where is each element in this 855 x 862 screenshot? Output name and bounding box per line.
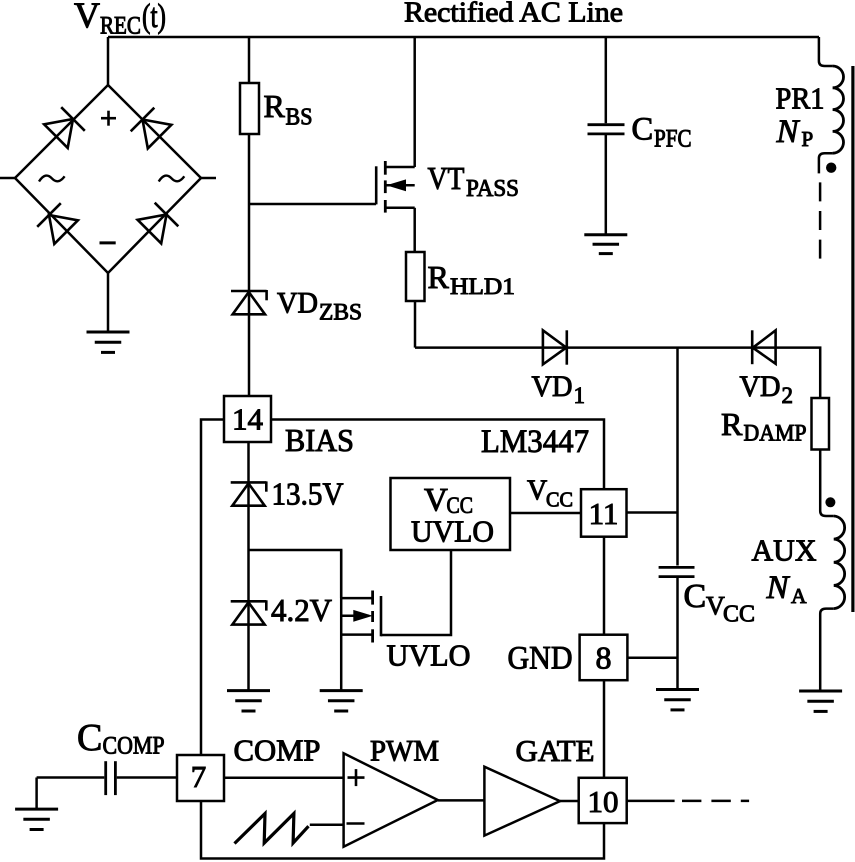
svg-text:PWM: PWM xyxy=(370,735,439,768)
svg-text:BIAS: BIAS xyxy=(285,422,354,458)
svg-text:ZBS: ZBS xyxy=(319,300,362,325)
diode VD2 xyxy=(752,330,775,364)
wire pin14 to 13.5V zener xyxy=(247,442,250,691)
wire VCC UVLO to pin11 xyxy=(510,512,581,515)
label BIAS xyxy=(285,422,354,458)
svg-text:R: R xyxy=(264,88,286,124)
transistor VT_PASS stubs xyxy=(385,167,414,208)
bridge minus sign xyxy=(100,241,116,244)
svg-text:10: 10 xyxy=(588,784,619,819)
diode bridge D2 top-right xyxy=(131,108,172,149)
wire PR1 top xyxy=(819,37,833,66)
svg-text:GATE: GATE xyxy=(516,733,595,768)
label 13.5V xyxy=(272,476,344,512)
svg-text:PASS: PASS xyxy=(466,176,519,202)
svg-text:14: 14 xyxy=(232,402,264,437)
svg-text:CC: CC xyxy=(546,488,573,512)
svg-text:P: P xyxy=(802,127,814,151)
svg-text:N: N xyxy=(766,570,791,606)
pin 7 COMP xyxy=(177,755,224,801)
svg-text:PFC: PFC xyxy=(654,126,692,153)
node Rectified AC Line label xyxy=(404,0,623,29)
svg-text:LM3447: LM3447 xyxy=(481,424,589,460)
label VD_ZBS xyxy=(277,287,362,325)
wire VD2 to R_DAMP xyxy=(776,348,821,398)
wire C_PFC bottom xyxy=(605,135,608,235)
wire PR1 dashed continuation xyxy=(819,182,822,259)
capacitor C_COMP xyxy=(106,761,116,795)
svg-text:2: 2 xyxy=(782,383,794,408)
diode VD1 xyxy=(543,330,567,364)
svg-text:CC: CC xyxy=(723,602,755,628)
svg-text:11: 11 xyxy=(589,496,619,531)
svg-text:DAMP: DAMP xyxy=(744,421,807,446)
label R_HLD1 xyxy=(428,259,516,299)
wire bridge bottom xyxy=(107,273,110,332)
label LM3447 xyxy=(481,424,589,460)
label R_BS xyxy=(264,88,313,131)
label GATE xyxy=(516,733,595,768)
ground bridge xyxy=(87,332,130,352)
svg-text:UVLO: UVLO xyxy=(411,514,494,549)
node AUX phase dot xyxy=(825,497,835,507)
pin 8 GND xyxy=(580,635,628,681)
resistor R_BS xyxy=(240,83,259,134)
svg-text:BS: BS xyxy=(286,105,313,131)
label C_VCC xyxy=(684,578,756,628)
svg-text:4.2V: 4.2V xyxy=(271,592,332,628)
svg-text:COMP: COMP xyxy=(103,733,165,760)
wire C_VCC to ground xyxy=(676,578,679,690)
wire branch to UVLO fet xyxy=(249,550,342,598)
label N_A xyxy=(766,570,808,608)
capacitor C_VCC xyxy=(659,567,695,576)
label AUX xyxy=(752,533,817,568)
bridge plus sign xyxy=(101,111,116,126)
label PWM xyxy=(370,735,439,768)
wire pin7 to PWM xyxy=(224,777,344,780)
label GND xyxy=(508,641,573,677)
label PR1 xyxy=(776,81,825,116)
transistor UVLO fet channel xyxy=(371,591,374,643)
wire R_BS to VD_ZBS xyxy=(248,134,251,396)
transistor UVLO fet stubs xyxy=(341,598,372,635)
svg-text:VD: VD xyxy=(277,287,318,320)
svg-text:COMP: COMP xyxy=(234,733,321,768)
winding PR1 primary xyxy=(819,66,844,173)
wire pin11 to VCC node xyxy=(627,511,678,514)
buffer gate driver xyxy=(484,767,560,836)
zener diode 4.2V xyxy=(231,600,267,624)
resistor R_HLD1 xyxy=(406,252,425,301)
svg-text:C: C xyxy=(632,112,654,148)
svg-text:7: 7 xyxy=(191,759,207,794)
transistor VT_PASS gate bar xyxy=(375,166,378,204)
wire pin8 to VCC node xyxy=(627,656,677,659)
wire driver to pin10 xyxy=(560,800,579,803)
label C_COMP xyxy=(77,717,165,760)
svg-text:8: 8 xyxy=(596,640,612,676)
svg-text:V: V xyxy=(74,0,100,35)
label 4.2V xyxy=(271,592,332,628)
block VCC UVLO xyxy=(391,478,511,550)
svg-text:HLD1: HLD1 xyxy=(450,274,515,299)
svg-text:1: 1 xyxy=(574,383,586,408)
wire pin10 output xyxy=(627,800,675,803)
wire R_BS top xyxy=(248,37,251,83)
svg-text:UVLO: UVLO xyxy=(387,638,471,673)
svg-text:VD: VD xyxy=(532,370,573,403)
ground C_PFC xyxy=(584,235,627,254)
label C_PFC xyxy=(632,112,692,153)
ground AUX xyxy=(799,691,842,711)
wire C_COMP left xyxy=(37,776,105,779)
sawtooth ramp symbol xyxy=(235,814,309,844)
svg-text:AUX: AUX xyxy=(752,533,817,568)
wire VCC node vertical xyxy=(676,348,679,566)
wire C_COMP ground stub xyxy=(35,778,38,810)
node PR1 phase dot xyxy=(826,163,836,173)
transistor UVLO fet arrow xyxy=(354,611,371,622)
node V_REC label xyxy=(74,0,166,40)
wire gate of VT_PASS xyxy=(249,203,376,206)
svg-text:V: V xyxy=(527,476,547,507)
wire sawtooth to PWM xyxy=(310,823,344,826)
wire UVLO gate xyxy=(381,551,451,635)
label COMP xyxy=(234,733,321,768)
svg-text:GND: GND xyxy=(508,641,573,677)
PWM plus sign xyxy=(348,769,365,786)
svg-text:(t): (t) xyxy=(142,0,166,35)
label VT_PASS xyxy=(428,160,520,202)
label VD1 xyxy=(532,370,586,408)
pin 11 VCC xyxy=(581,489,627,537)
capacitor C_PFC xyxy=(588,125,625,134)
op-amp PWM comparator xyxy=(344,753,438,846)
ground zener branch xyxy=(227,691,270,711)
transistor VT_PASS arrow xyxy=(388,180,406,191)
zener diode VD_ZBS xyxy=(231,290,267,314)
label UVLO xyxy=(387,638,471,673)
pin 10 GATE xyxy=(579,778,627,823)
label VD2 xyxy=(740,370,794,408)
svg-text:Rectified AC Line: Rectified AC Line xyxy=(404,0,623,29)
diode bridge D4 bottom-right xyxy=(138,203,179,244)
svg-text:A: A xyxy=(791,584,807,608)
wire VD1 to VD2 xyxy=(567,346,776,349)
wire rectified AC line top rail xyxy=(108,36,819,39)
bridge rectifier diamond xyxy=(0,85,216,273)
ground C_VCC xyxy=(656,690,699,710)
label VCC pin xyxy=(527,476,573,512)
wire R_HLD1 to VD1 xyxy=(415,301,567,348)
wire C_COMP to pin7 xyxy=(117,776,177,779)
wire C_PFC top xyxy=(605,37,608,123)
transistor UVLO fet gate bar xyxy=(380,596,383,636)
transistor VT_PASS channel xyxy=(384,161,387,213)
IC LM3447 outline xyxy=(201,420,604,859)
svg-text:REC: REC xyxy=(100,13,141,40)
zener diode 13.5V xyxy=(231,481,267,505)
wire VT_PASS source xyxy=(413,208,416,252)
wire VT_PASS drain xyxy=(413,37,416,167)
wire R_DAMP to AUX xyxy=(819,450,822,512)
pin 14 BIAS xyxy=(224,396,271,442)
ground UVLO fet xyxy=(320,691,363,711)
svg-text:VT: VT xyxy=(428,160,465,196)
label R_DAMP xyxy=(721,406,807,446)
svg-text:N: N xyxy=(776,114,801,150)
diode bridge D3 bottom-left xyxy=(37,203,78,244)
label N_P xyxy=(776,114,814,151)
svg-text:VD: VD xyxy=(740,370,781,403)
wire PWM to driver xyxy=(438,799,485,802)
svg-text:PR1: PR1 xyxy=(776,81,825,116)
svg-text:C: C xyxy=(77,717,102,759)
svg-text:C: C xyxy=(684,578,707,615)
winding AUX auxiliary xyxy=(820,511,844,691)
bridge tilde right xyxy=(159,176,185,182)
transistor UVLO fet terminal line xyxy=(340,550,343,691)
PWM minus sign xyxy=(347,822,365,825)
wire pin10 dashed output xyxy=(682,800,749,803)
resistor R_DAMP xyxy=(812,398,830,450)
svg-text:R: R xyxy=(428,259,450,295)
svg-text:13.5V: 13.5V xyxy=(272,476,344,512)
transformer core xyxy=(851,66,854,612)
ground C_COMP xyxy=(15,809,58,829)
diode bridge D1 top-left xyxy=(44,107,85,148)
wire bridge top xyxy=(107,37,110,85)
bridge tilde left xyxy=(39,176,65,182)
svg-text:R: R xyxy=(721,406,743,442)
